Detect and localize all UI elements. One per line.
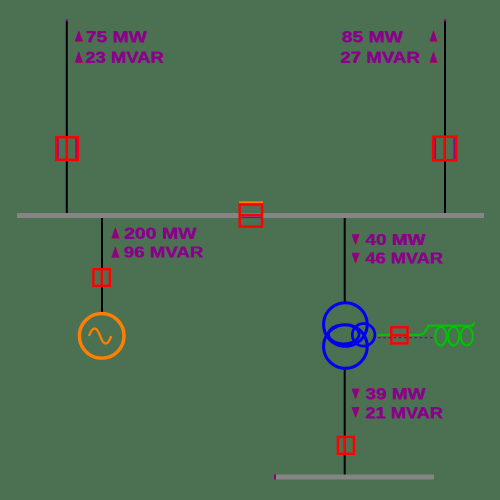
svg-text:21 MVAR: 21 MVAR xyxy=(365,405,443,422)
svg-text:39 MW: 39 MW xyxy=(365,386,426,403)
svg-text:40 MW: 40 MW xyxy=(365,232,426,249)
svg-text:46 MVAR: 46 MVAR xyxy=(365,250,443,267)
svg-text:23 MVAR: 23 MVAR xyxy=(85,50,164,67)
svg-text:27 MVAR: 27 MVAR xyxy=(340,50,420,67)
svg-text:200 MW: 200 MW xyxy=(124,226,197,243)
svg-text:85 MW: 85 MW xyxy=(342,29,404,46)
svg-text:75 MW: 75 MW xyxy=(86,29,148,46)
svg-text:96 MVAR: 96 MVAR xyxy=(124,244,204,261)
